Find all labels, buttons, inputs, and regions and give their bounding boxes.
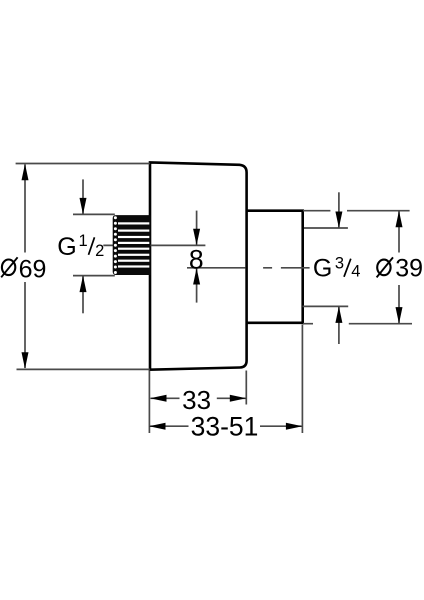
svg-text:G: G <box>57 233 76 261</box>
arrowhead 33-51 right <box>286 423 303 430</box>
dimension line D39 upper <box>398 212 400 253</box>
svg-text:69: 69 <box>19 255 47 283</box>
extension line G3/4 top <box>304 227 348 229</box>
arrowhead dim8 bottom <box>193 268 200 285</box>
arrowhead 33-51 left <box>149 423 166 430</box>
svg-text:1: 1 <box>79 232 88 250</box>
knurl chamfer scallops <box>114 216 117 274</box>
arrow shaft G1/2 top <box>82 179 84 213</box>
knurl thread stripes <box>118 222 149 267</box>
svg-text:8: 8 <box>189 244 204 274</box>
arrowhead 33 right <box>230 395 247 402</box>
arrow shaft dim8 top <box>196 211 198 245</box>
svg-text:3: 3 <box>335 255 344 273</box>
svg-text:33: 33 <box>182 385 211 415</box>
arrowhead D39 top <box>396 211 403 228</box>
extension line bottom of body <box>17 368 150 370</box>
arrowhead dim8 top <box>193 229 200 246</box>
svg-text:33-51: 33-51 <box>191 412 259 442</box>
arrowhead D69 top <box>22 164 29 181</box>
arrowhead G1/2 bottom <box>80 276 87 293</box>
extension line left below body <box>148 371 150 434</box>
extension line D39 bottom <box>303 323 412 325</box>
dimension line D69 lower <box>24 282 26 368</box>
extension line G1/2 top <box>73 213 115 215</box>
svg-text:G: G <box>313 255 332 283</box>
extension line G1/2 bottom <box>73 275 115 277</box>
arrowhead 33 left <box>150 395 167 402</box>
extension line dim33-51 right <box>301 325 303 434</box>
arrow shaft G3/4 bottom <box>338 307 340 344</box>
arrowhead D69 bottom <box>22 352 29 369</box>
arrow shaft G1/2 bottom <box>82 277 84 314</box>
svg-text:2: 2 <box>95 242 104 260</box>
diameter symbol D39 <box>377 257 393 277</box>
dimension line 33 <box>151 397 246 399</box>
arrowhead G3/4 bottom <box>335 306 342 323</box>
diameter symbol D69 <box>1 257 17 277</box>
centerline G1/2 axis <box>103 244 205 246</box>
dimension line D69 upper <box>24 165 26 253</box>
arrowhead G1/2 top <box>80 198 87 215</box>
svg-text:4: 4 <box>351 263 360 281</box>
extension line G3/4 bottom <box>303 305 349 307</box>
svg-text:39: 39 <box>395 254 423 282</box>
knurled G1/2 thread <box>113 215 151 275</box>
dimension line D39 lower <box>398 285 400 323</box>
extension line top of body <box>16 163 150 165</box>
arrowhead G3/4 top <box>335 212 342 229</box>
arrow shaft dim8 bottom <box>196 268 198 302</box>
centerline G3/4 axis <box>187 267 310 269</box>
fitting body <box>150 162 247 369</box>
extension line dim33 right <box>245 371 247 405</box>
extension line D39 top <box>303 210 410 212</box>
G3/4 outlet cylinder <box>247 211 303 323</box>
dimension line 33-51 <box>150 425 302 427</box>
arrow shaft G3/4 top <box>338 192 340 227</box>
arrowhead D39 bottom <box>396 307 403 324</box>
